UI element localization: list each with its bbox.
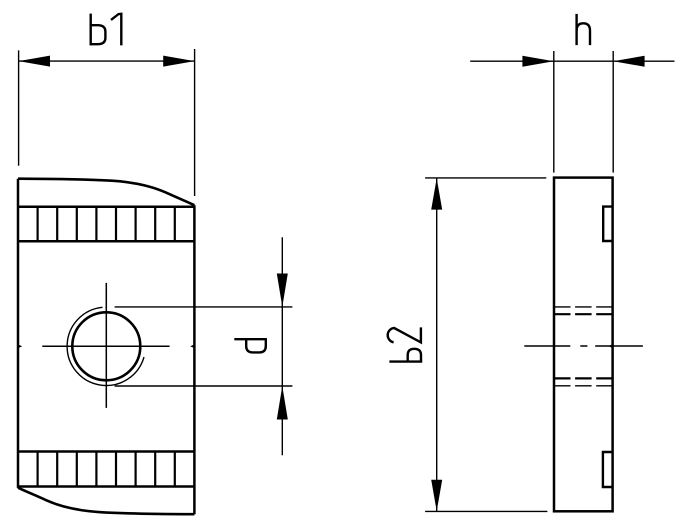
dimension d lower extension line <box>115 385 293 387</box>
right edge V-notch marker <box>190 344 195 348</box>
dimension h line with outside tails <box>470 60 674 62</box>
label h <box>577 14 590 45</box>
dimension b1 left arrowhead <box>19 56 50 67</box>
dimension d lower arrowhead <box>277 386 288 420</box>
side view upper hole hidden line bold <box>554 313 613 315</box>
front view crowned top arc <box>18 179 194 206</box>
dimension b2 bottom extension line <box>425 510 547 512</box>
dimension d line <box>281 237 283 455</box>
dimension b2 top extension line <box>425 177 546 179</box>
dimension h right extension line <box>612 51 614 173</box>
left edge V-notch marker <box>18 344 23 348</box>
top serration band rails <box>18 207 194 242</box>
dimension h left extension line <box>553 51 555 173</box>
bottom serration band rails <box>18 452 194 487</box>
tapped hole bold circle <box>72 312 140 380</box>
side view dash-dot centerline <box>524 345 643 347</box>
label b1 digit 1 <box>111 14 121 46</box>
side view bottom serration notch <box>603 452 613 487</box>
label b2 letter b rotated <box>389 349 422 362</box>
dimension h right arrowhead <box>613 56 644 67</box>
side view body outline <box>554 178 613 512</box>
front view body outline left edge <box>17 179 20 488</box>
bottom serration teeth hatch <box>38 452 175 487</box>
front view crowned bottom arc <box>18 488 194 515</box>
hole horizontal centerline <box>42 345 169 347</box>
dimension d upper arrowhead <box>277 274 288 307</box>
dimension b2 top arrowhead <box>431 178 442 209</box>
label b1 letter b <box>91 14 106 46</box>
dimension b1 line <box>19 60 195 62</box>
hole vertical centerline <box>105 283 107 408</box>
side view top serration notch <box>603 207 612 241</box>
side view upper thread hidden line thin <box>554 306 613 308</box>
side view lower thread hidden line thin <box>554 385 613 387</box>
thread thin arc <box>67 307 144 385</box>
dimension h left arrowhead <box>522 56 553 67</box>
dimension b2 bottom arrowhead <box>431 480 442 511</box>
dimension b1 left extension line <box>18 50 20 165</box>
dimension d upper extension line <box>115 306 293 308</box>
top serration teeth hatch <box>38 207 175 242</box>
dimension b2 line <box>436 178 438 511</box>
label b2 digit 2 rotated <box>388 327 421 342</box>
side view lower hole hidden line bold <box>554 377 613 379</box>
side view right edge V-notch marker <box>608 344 613 348</box>
label d rotated <box>234 339 267 352</box>
front view body outline right edge <box>193 205 196 514</box>
dimension b1 right extension line <box>194 49 196 196</box>
dimension b1 right arrowhead <box>163 56 194 67</box>
